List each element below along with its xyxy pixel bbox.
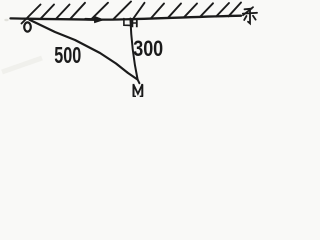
hatch 2 bbox=[41, 5, 55, 19]
hatch 1 bbox=[22, 5, 41, 24]
wire: ground line east bbox=[11, 16, 242, 20]
hatch 5 bbox=[91, 3, 108, 20]
hatch 9 bbox=[168, 4, 181, 18]
hatch 8 bbox=[151, 4, 164, 19]
hatch 12 bbox=[216, 3, 229, 17]
right angle mark at H bbox=[124, 19, 131, 26]
hatch 3 bbox=[56, 5, 70, 19]
hatch 13 bbox=[229, 3, 242, 17]
hatch 4 bbox=[70, 3, 85, 19]
faint smudge near line start bbox=[4, 19, 8, 21]
hatch 11 bbox=[200, 3, 213, 17]
svg-text:500: 500 bbox=[54, 42, 81, 68]
label east (dong) bbox=[243, 7, 257, 23]
svg-text:300: 300 bbox=[133, 36, 163, 61]
label H bbox=[132, 19, 138, 27]
line OM bbox=[30, 20, 138, 80]
hatch 6 bbox=[113, 2, 131, 20]
arrow shaft bbox=[86, 18, 96, 21]
line HM bbox=[130, 19, 139, 84]
arrowhead east bbox=[94, 16, 106, 24]
hatch 7 bbox=[131, 3, 144, 22]
faint scan streak bottom-left bbox=[2, 58, 42, 72]
hatch 10 bbox=[184, 4, 197, 18]
label M bbox=[133, 85, 144, 97]
point O circle bbox=[24, 22, 31, 31]
